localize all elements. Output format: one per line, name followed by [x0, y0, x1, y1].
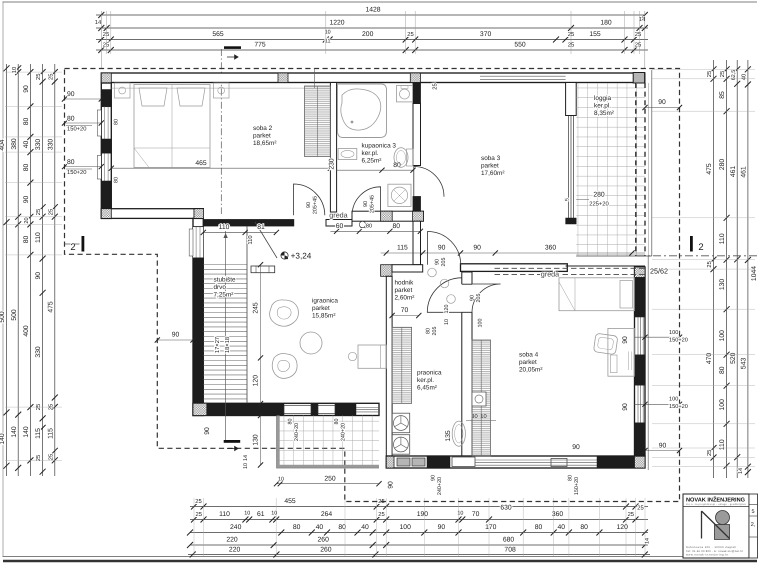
- section 2 cut line left stub: [65, 243, 81, 245]
- svg-text:115: 115: [397, 245, 408, 252]
- svg-text:25: 25: [378, 511, 384, 518]
- svg-text:25: 25: [706, 450, 713, 456]
- svg-text:130: 130: [253, 434, 260, 446]
- title block logo N: [701, 511, 703, 539]
- wall soba2/kupaonica: [330, 83, 336, 213]
- svg-text:225+20: 225+20: [589, 201, 609, 208]
- kupaonica small basin: [338, 149, 357, 160]
- soba3 south wall: [461, 264, 568, 272]
- svg-text:stubište: stubište: [214, 277, 236, 284]
- svg-text:110: 110: [219, 511, 230, 518]
- svg-text:330: 330: [47, 139, 54, 151]
- svg-text:14: 14: [738, 468, 744, 474]
- svg-text:380: 380: [11, 138, 18, 150]
- svg-text:80: 80: [535, 524, 543, 531]
- svg-text:130: 130: [719, 279, 726, 291]
- section 1 cut line upper: [220, 49, 222, 214]
- svg-text:40: 40: [23, 141, 30, 149]
- svg-text:14: 14: [243, 455, 249, 461]
- svg-text:25: 25: [47, 209, 54, 215]
- svg-text:80: 80: [114, 119, 120, 125]
- svg-text:25: 25: [47, 74, 54, 80]
- svg-text:greda: greda: [541, 270, 559, 279]
- svg-text:100: 100: [719, 330, 726, 342]
- dimension row 115/90/90/360 hall: [381, 252, 645, 254]
- svg-text:14: 14: [95, 20, 102, 26]
- igraonica beanbag 2: [272, 354, 297, 379]
- svg-text:205: 205: [441, 258, 447, 267]
- soba2 bottom wall: [101, 209, 203, 219]
- svg-text:475: 475: [706, 163, 713, 175]
- svg-text:10: 10: [243, 463, 249, 469]
- svg-text:80: 80: [334, 419, 340, 425]
- pier checkered soba2 bottom east end: [194, 209, 204, 219]
- left dimension column D 25/330/25/110/90/330/25/115/25: [42, 64, 44, 476]
- section 2 marker left: [82, 236, 85, 252]
- svg-text:115: 115: [35, 428, 42, 439]
- soba4 east window 2: [637, 385, 639, 423]
- soba4 east wall solid pier a: [635, 278, 646, 317]
- svg-text:90: 90: [23, 196, 30, 204]
- loggia divider window: [568, 116, 570, 219]
- soba2 nightstand right: [214, 83, 230, 98]
- svg-text:110: 110: [719, 439, 726, 450]
- svg-text:400: 400: [23, 325, 30, 337]
- svg-text:205: 205: [432, 327, 438, 336]
- left extension lines: [5, 71, 62, 73]
- svg-text:parket: parket: [481, 162, 499, 169]
- svg-text:ker.pl.: ker.pl.: [362, 150, 379, 157]
- svg-text:25: 25: [35, 209, 42, 215]
- section 1 marker bottom: [224, 440, 241, 443]
- wall kupaonica/soba3 lower with door opening: [413, 104, 421, 166]
- bottom row 220/260/680: [190, 544, 648, 546]
- svg-text:2,60m²: 2,60m²: [395, 294, 415, 301]
- stair side line: [246, 226, 248, 403]
- right extension lines: [652, 68, 755, 70]
- svg-text:80: 80: [23, 236, 30, 244]
- svg-text:5: 5: [751, 509, 754, 515]
- soba2 nightstand left: [115, 83, 131, 98]
- svg-text:90: 90: [622, 336, 629, 344]
- svg-text:680: 680: [503, 537, 515, 544]
- svg-text:240+20: 240+20: [437, 477, 443, 495]
- wall hodnik/soba4: [462, 272, 472, 456]
- door kupaonica-soba3: [414, 167, 444, 197]
- svg-text:90: 90: [35, 272, 42, 280]
- svg-text:260: 260: [320, 547, 332, 554]
- svg-text:25: 25: [103, 31, 109, 38]
- soba2 furniture line along top wall: [111, 87, 330, 89]
- svg-text:120: 120: [617, 524, 629, 531]
- svg-text:ker.pl.: ker.pl.: [417, 377, 434, 384]
- svg-text:25: 25: [635, 42, 641, 49]
- svg-text:90: 90: [388, 481, 395, 489]
- soba2 blanket line: [134, 147, 210, 149]
- right dimension column R1 25/475/25/470/25: [713, 60, 715, 478]
- stair west wall solid part: [193, 258, 203, 403]
- svg-text:soba 2: soba 2: [253, 125, 273, 132]
- south wall grey boxes praonica window: [397, 458, 410, 466]
- svg-text:40: 40: [558, 524, 566, 531]
- svg-text:81: 81: [257, 224, 265, 231]
- pier checkered kupaonica south west: [381, 211, 393, 221]
- south wall sliding door box: [452, 457, 475, 467]
- svg-text:264: 264: [321, 511, 333, 518]
- soba2 wardrobe hatched: [305, 86, 331, 157]
- svg-text:Suhonovca 10b - 10000 Zagreb: Suhonovca 10b - 10000 Zagreb: [686, 546, 737, 549]
- section 1 marker top: [224, 46, 241, 49]
- svg-text:115: 115: [47, 428, 54, 439]
- svg-text:80: 80: [288, 419, 294, 425]
- left window dim 80/150+20 no1: [65, 122, 102, 124]
- dashed boundary of upper storey outline: [65, 69, 680, 502]
- wall soba3/loggia solid part: [566, 83, 577, 116]
- pier checkered top wall x278: [278, 73, 288, 83]
- svg-text:61: 61: [257, 511, 265, 518]
- svg-text:200: 200: [362, 31, 374, 38]
- svg-text:www.novak-inzenjering.hr: www.novak-inzenjering.hr: [686, 554, 729, 557]
- svg-text:praonica: praonica: [417, 370, 442, 377]
- igraonica bottom window lines: [356, 407, 379, 409]
- pillar grey top-right corner: [633, 73, 644, 84]
- south exterior wall: [386, 456, 645, 468]
- north corridor wall piece between doors: [326, 220, 352, 227]
- svg-text:drvo: drvo: [214, 284, 227, 291]
- svg-text:80: 80: [393, 223, 401, 230]
- title block box: [683, 494, 749, 558]
- svg-text:90: 90: [622, 403, 629, 411]
- svg-text:hodnik: hodnik: [395, 280, 415, 287]
- washing machine 1: [392, 413, 410, 433]
- igraonica bottom wall solid piers: [207, 403, 284, 415]
- top wall joint line: [313, 68, 315, 88]
- soba4 east window dim 1: [635, 336, 680, 338]
- svg-text:150+20: 150+20: [67, 126, 87, 133]
- svg-text:205+45: 205+45: [370, 195, 376, 213]
- stair west wall window: [193, 227, 203, 258]
- svg-text:25: 25: [719, 71, 726, 77]
- svg-text:90: 90: [363, 201, 369, 207]
- svg-text:25: 25: [706, 71, 713, 77]
- dimension 465 inside soba2: [111, 167, 330, 169]
- door soba4 from hodnik: [472, 284, 501, 313]
- svg-text:708: 708: [504, 547, 516, 554]
- svg-text:18,65m²: 18,65m²: [253, 140, 276, 147]
- svg-text:90: 90: [23, 85, 30, 93]
- svg-text:80: 80: [366, 224, 372, 230]
- stair treads: [203, 264, 247, 266]
- dimension 70 hodnik: [392, 315, 419, 317]
- svg-text:470: 470: [706, 353, 713, 365]
- svg-text:543: 543: [741, 358, 748, 370]
- south wall solid pier 1: [427, 456, 450, 468]
- svg-text:90: 90: [434, 259, 440, 265]
- south wall window sill box 2: [551, 459, 567, 467]
- svg-text:25: 25: [35, 74, 42, 80]
- svg-text:80: 80: [67, 116, 75, 123]
- top dimension row 25/565/10/200/25/370/25/155/25: [96, 39, 648, 41]
- title block logo circle: [716, 511, 730, 525]
- svg-text:100: 100: [400, 524, 412, 531]
- svg-text:140: 140: [11, 426, 18, 438]
- svg-text:110: 110: [35, 232, 42, 243]
- svg-text:140: 140: [23, 426, 30, 438]
- door kupaonica from corridor: [352, 187, 381, 216]
- svg-text:18×18: 18×18: [224, 337, 231, 353]
- pier checkered hodnik NW: [381, 265, 392, 277]
- svg-text:110: 110: [219, 224, 230, 231]
- svg-text:10: 10: [278, 477, 284, 483]
- dimension 90 left of stair wall: [157, 339, 193, 341]
- svg-text:135: 135: [445, 430, 452, 442]
- door soba3 from hodnik: [428, 232, 461, 265]
- igraonica beanbag 1: [270, 300, 299, 326]
- svg-text:205+45: 205+45: [313, 196, 319, 214]
- wall kupaonica/soba3: [413, 83, 421, 104]
- svg-text:80: 80: [568, 475, 574, 481]
- svg-text:90: 90: [572, 444, 580, 451]
- top dimension row 25/775/550/25: [96, 49, 648, 51]
- top wall window lines soba3: [480, 75, 566, 77]
- soba2 pillows: [139, 88, 167, 106]
- bottom extension lines: [193, 498, 195, 556]
- svg-text:150+20: 150+20: [669, 404, 688, 410]
- top exterior wall: [101, 73, 645, 83]
- svg-text:17×27: 17×27: [214, 337, 221, 353]
- dimension row 60/80/80 corridor: [330, 230, 420, 232]
- svg-text:150+20: 150+20: [574, 477, 580, 495]
- north corridor wall west part: [203, 220, 293, 227]
- svg-text:25: 25: [195, 511, 201, 518]
- loggia open edge dashed lines: [635, 83, 637, 256]
- svg-text:80: 80: [23, 118, 30, 126]
- left wall solid pier 3: [101, 181, 111, 209]
- svg-text:465: 465: [195, 160, 207, 167]
- svg-text:155: 155: [589, 31, 601, 38]
- svg-text:90: 90: [172, 332, 180, 339]
- right dimension column R3 62,5/461/520: [736, 60, 738, 478]
- svg-text:500: 500: [0, 311, 6, 323]
- svg-text:90: 90: [438, 245, 446, 252]
- svg-text:280: 280: [593, 192, 605, 199]
- svg-text:60: 60: [336, 223, 344, 230]
- soba4 east wall solid pier b: [635, 355, 646, 385]
- section 2 marker right: [690, 236, 693, 252]
- left wall window 2 lines: [103, 153, 105, 181]
- left wall solid pier 1: [101, 90, 111, 107]
- kupaonica bathtub: [338, 84, 387, 138]
- svg-text:80: 80: [67, 159, 75, 166]
- svg-text:25: 25: [637, 505, 643, 512]
- svg-text:220: 220: [229, 547, 241, 554]
- soba4 desk: [608, 328, 635, 376]
- svg-text:100: 100: [669, 397, 678, 403]
- loggia tiled floor: [576, 83, 645, 256]
- svg-text:100: 100: [478, 319, 484, 328]
- svg-text:25: 25: [628, 511, 634, 518]
- svg-text:25: 25: [706, 261, 713, 267]
- svg-text:120: 120: [444, 305, 450, 314]
- svg-text:90: 90: [438, 524, 446, 531]
- title block right column: [749, 494, 758, 558]
- svg-text:120: 120: [253, 375, 260, 387]
- svg-text:25: 25: [432, 83, 439, 89]
- svg-text:90: 90: [431, 475, 437, 481]
- svg-text:461: 461: [730, 166, 737, 178]
- soba4 east exterior wall: [635, 267, 646, 456]
- svg-text:455: 455: [284, 498, 296, 505]
- svg-text:2: 2: [698, 242, 703, 253]
- svg-text:1428: 1428: [365, 7, 380, 14]
- svg-text:404: 404: [0, 139, 6, 151]
- bottom row 25/110/10/61/10/264/25/190/10/70/360/25: [190, 519, 648, 521]
- terrace dimension 10/250: [277, 483, 380, 485]
- terrace grey edge: [278, 416, 379, 467]
- svg-text:Tel: 01 46 00 800 - E: novak.i: Tel: 01 46 00 800 - E: novak.inz@net.hr: [686, 550, 743, 553]
- greda beam below loggia dashed: [495, 267, 646, 269]
- praonica closet hatched: [392, 327, 412, 403]
- bottom row 240/80/40/80/40/100/90/170/80/40/80/120: [190, 532, 648, 534]
- svg-text:370: 370: [480, 31, 492, 38]
- svg-text:igraonica: igraonica: [312, 298, 338, 305]
- right dimension column R4 40/461/543/14: [747, 60, 749, 478]
- svg-text:17,60m²: 17,60m²: [481, 170, 504, 177]
- svg-text:110: 110: [247, 235, 254, 244]
- svg-text:565: 565: [212, 31, 224, 38]
- svg-text:soba 4: soba 4: [519, 352, 539, 359]
- svg-text:90: 90: [659, 443, 667, 450]
- svg-text:100: 100: [719, 399, 726, 411]
- stair break line: [255, 222, 277, 258]
- svg-text:+3,24: +3,24: [291, 252, 312, 261]
- igraonica bottom window sill boxes: [284, 405, 311, 413]
- svg-text:25: 25: [103, 42, 109, 49]
- left wall solid pier 2: [101, 139, 111, 153]
- pier checkered overlays redraw: [386, 456, 394, 468]
- svg-text:parket: parket: [395, 287, 413, 294]
- dimension 90 bottom right outside: [645, 450, 680, 452]
- south wall window lines 2: [540, 459, 597, 461]
- soba4 east window dim 2: [635, 403, 680, 405]
- door 80 circle label: [359, 221, 365, 227]
- svg-text:parket: parket: [519, 359, 537, 366]
- igraonica round table: [300, 332, 322, 354]
- svg-text:330: 330: [35, 346, 42, 358]
- svg-text:6,25m²: 6,25m²: [362, 157, 382, 164]
- svg-text:40: 40: [741, 74, 748, 80]
- svg-text:70: 70: [401, 307, 409, 314]
- svg-text:630: 630: [500, 505, 512, 512]
- svg-text:150+20: 150+20: [67, 169, 87, 176]
- svg-text:140: 140: [0, 433, 6, 445]
- svg-text:220: 220: [226, 537, 238, 544]
- dimension 80 kupaonica: [337, 169, 413, 171]
- svg-text:90: 90: [306, 202, 312, 208]
- svg-text:245: 245: [253, 302, 260, 314]
- svg-text:80: 80: [719, 366, 726, 374]
- svg-text:80: 80: [426, 328, 432, 334]
- soba4 east wall solid pier c: [635, 423, 646, 456]
- svg-text:190: 190: [417, 511, 429, 518]
- svg-text:20,05m²: 20,05m²: [519, 366, 542, 373]
- svg-text:85: 85: [719, 91, 726, 99]
- interior dimension 245/120: [260, 265, 262, 404]
- svg-text:100: 100: [669, 330, 678, 336]
- left wall window 1 lines: [101, 106, 111, 108]
- svg-text:parket: parket: [253, 132, 271, 139]
- svg-text:70: 70: [472, 511, 480, 518]
- top extension lines: [100, 11, 102, 68]
- door praonica from hodnik: [427, 278, 462, 313]
- svg-text:250: 250: [324, 476, 336, 483]
- svg-text:25/62: 25/62: [650, 267, 668, 276]
- pier checkered praonica SW: [386, 456, 394, 468]
- svg-text:20: 20: [24, 217, 30, 223]
- soba4 east window 1: [637, 317, 639, 355]
- kupaonica washbasin top: [397, 86, 413, 102]
- svg-text:150+20: 150+20: [669, 338, 688, 344]
- soba4 north boundary line below loggia: [566, 265, 645, 267]
- soba4 bed: [559, 278, 635, 311]
- svg-text:110: 110: [719, 233, 726, 244]
- svg-text:461: 461: [741, 166, 748, 178]
- svg-text:15,85m²: 15,85m²: [312, 312, 335, 319]
- top dimension row 14/1220/180/14: [96, 27, 648, 29]
- left wall window sill boxes: [97, 110, 101, 136]
- svg-text:1044: 1044: [751, 266, 758, 281]
- facade line right of soba4: [647, 256, 649, 470]
- loggia railing lines: [651, 70, 653, 256]
- svg-text:8,35m²: 8,35m²: [594, 110, 614, 117]
- soba4 closet hatched: [472, 340, 491, 456]
- svg-text:parket: parket: [312, 305, 330, 312]
- svg-text:80: 80: [114, 177, 120, 183]
- svg-text:280: 280: [719, 159, 726, 171]
- svg-text:775: 775: [254, 42, 266, 49]
- svg-text:90: 90: [658, 99, 666, 106]
- svg-text:80: 80: [580, 524, 588, 531]
- svg-text:6,45m²: 6,45m²: [417, 384, 437, 391]
- svg-text:d.o.o. za projektiranje - uslu: d.o.o. za projektiranje - usluge - gradi…: [686, 503, 747, 506]
- svg-text:greda: greda: [329, 211, 347, 220]
- svg-text:40: 40: [361, 524, 369, 531]
- washing machine 2: [392, 435, 410, 455]
- title block logo square: [715, 525, 730, 540]
- svg-text:1220: 1220: [329, 20, 344, 27]
- svg-text:240: 240: [230, 524, 242, 531]
- door soba2 from corridor: [294, 184, 325, 215]
- svg-text:10: 10: [244, 511, 250, 517]
- kupaonica shower tray: [388, 184, 411, 206]
- svg-text:90: 90: [67, 91, 75, 98]
- svg-text:14: 14: [645, 538, 651, 544]
- svg-text:330: 330: [35, 139, 42, 151]
- left exterior wall band: [101, 83, 111, 218]
- pier checkered top wall x410: [410, 73, 420, 83]
- svg-text:240+20: 240+20: [294, 423, 300, 441]
- stair walk line with arrow: [225, 231, 227, 440]
- wall praonica west: [386, 276, 392, 468]
- bottom row 25/455/25/630/25: [190, 506, 648, 508]
- svg-text:240+20: 240+20: [341, 423, 347, 441]
- section 2 cut line right stub: [637, 255, 757, 257]
- top dimension row total 1428: [96, 14, 645, 16]
- svg-text:550: 550: [514, 42, 526, 49]
- svg-text:25: 25: [47, 454, 54, 460]
- igraonica bottom wall: [193, 403, 379, 415]
- left dimension column A total 404/500/140: [6, 64, 8, 476]
